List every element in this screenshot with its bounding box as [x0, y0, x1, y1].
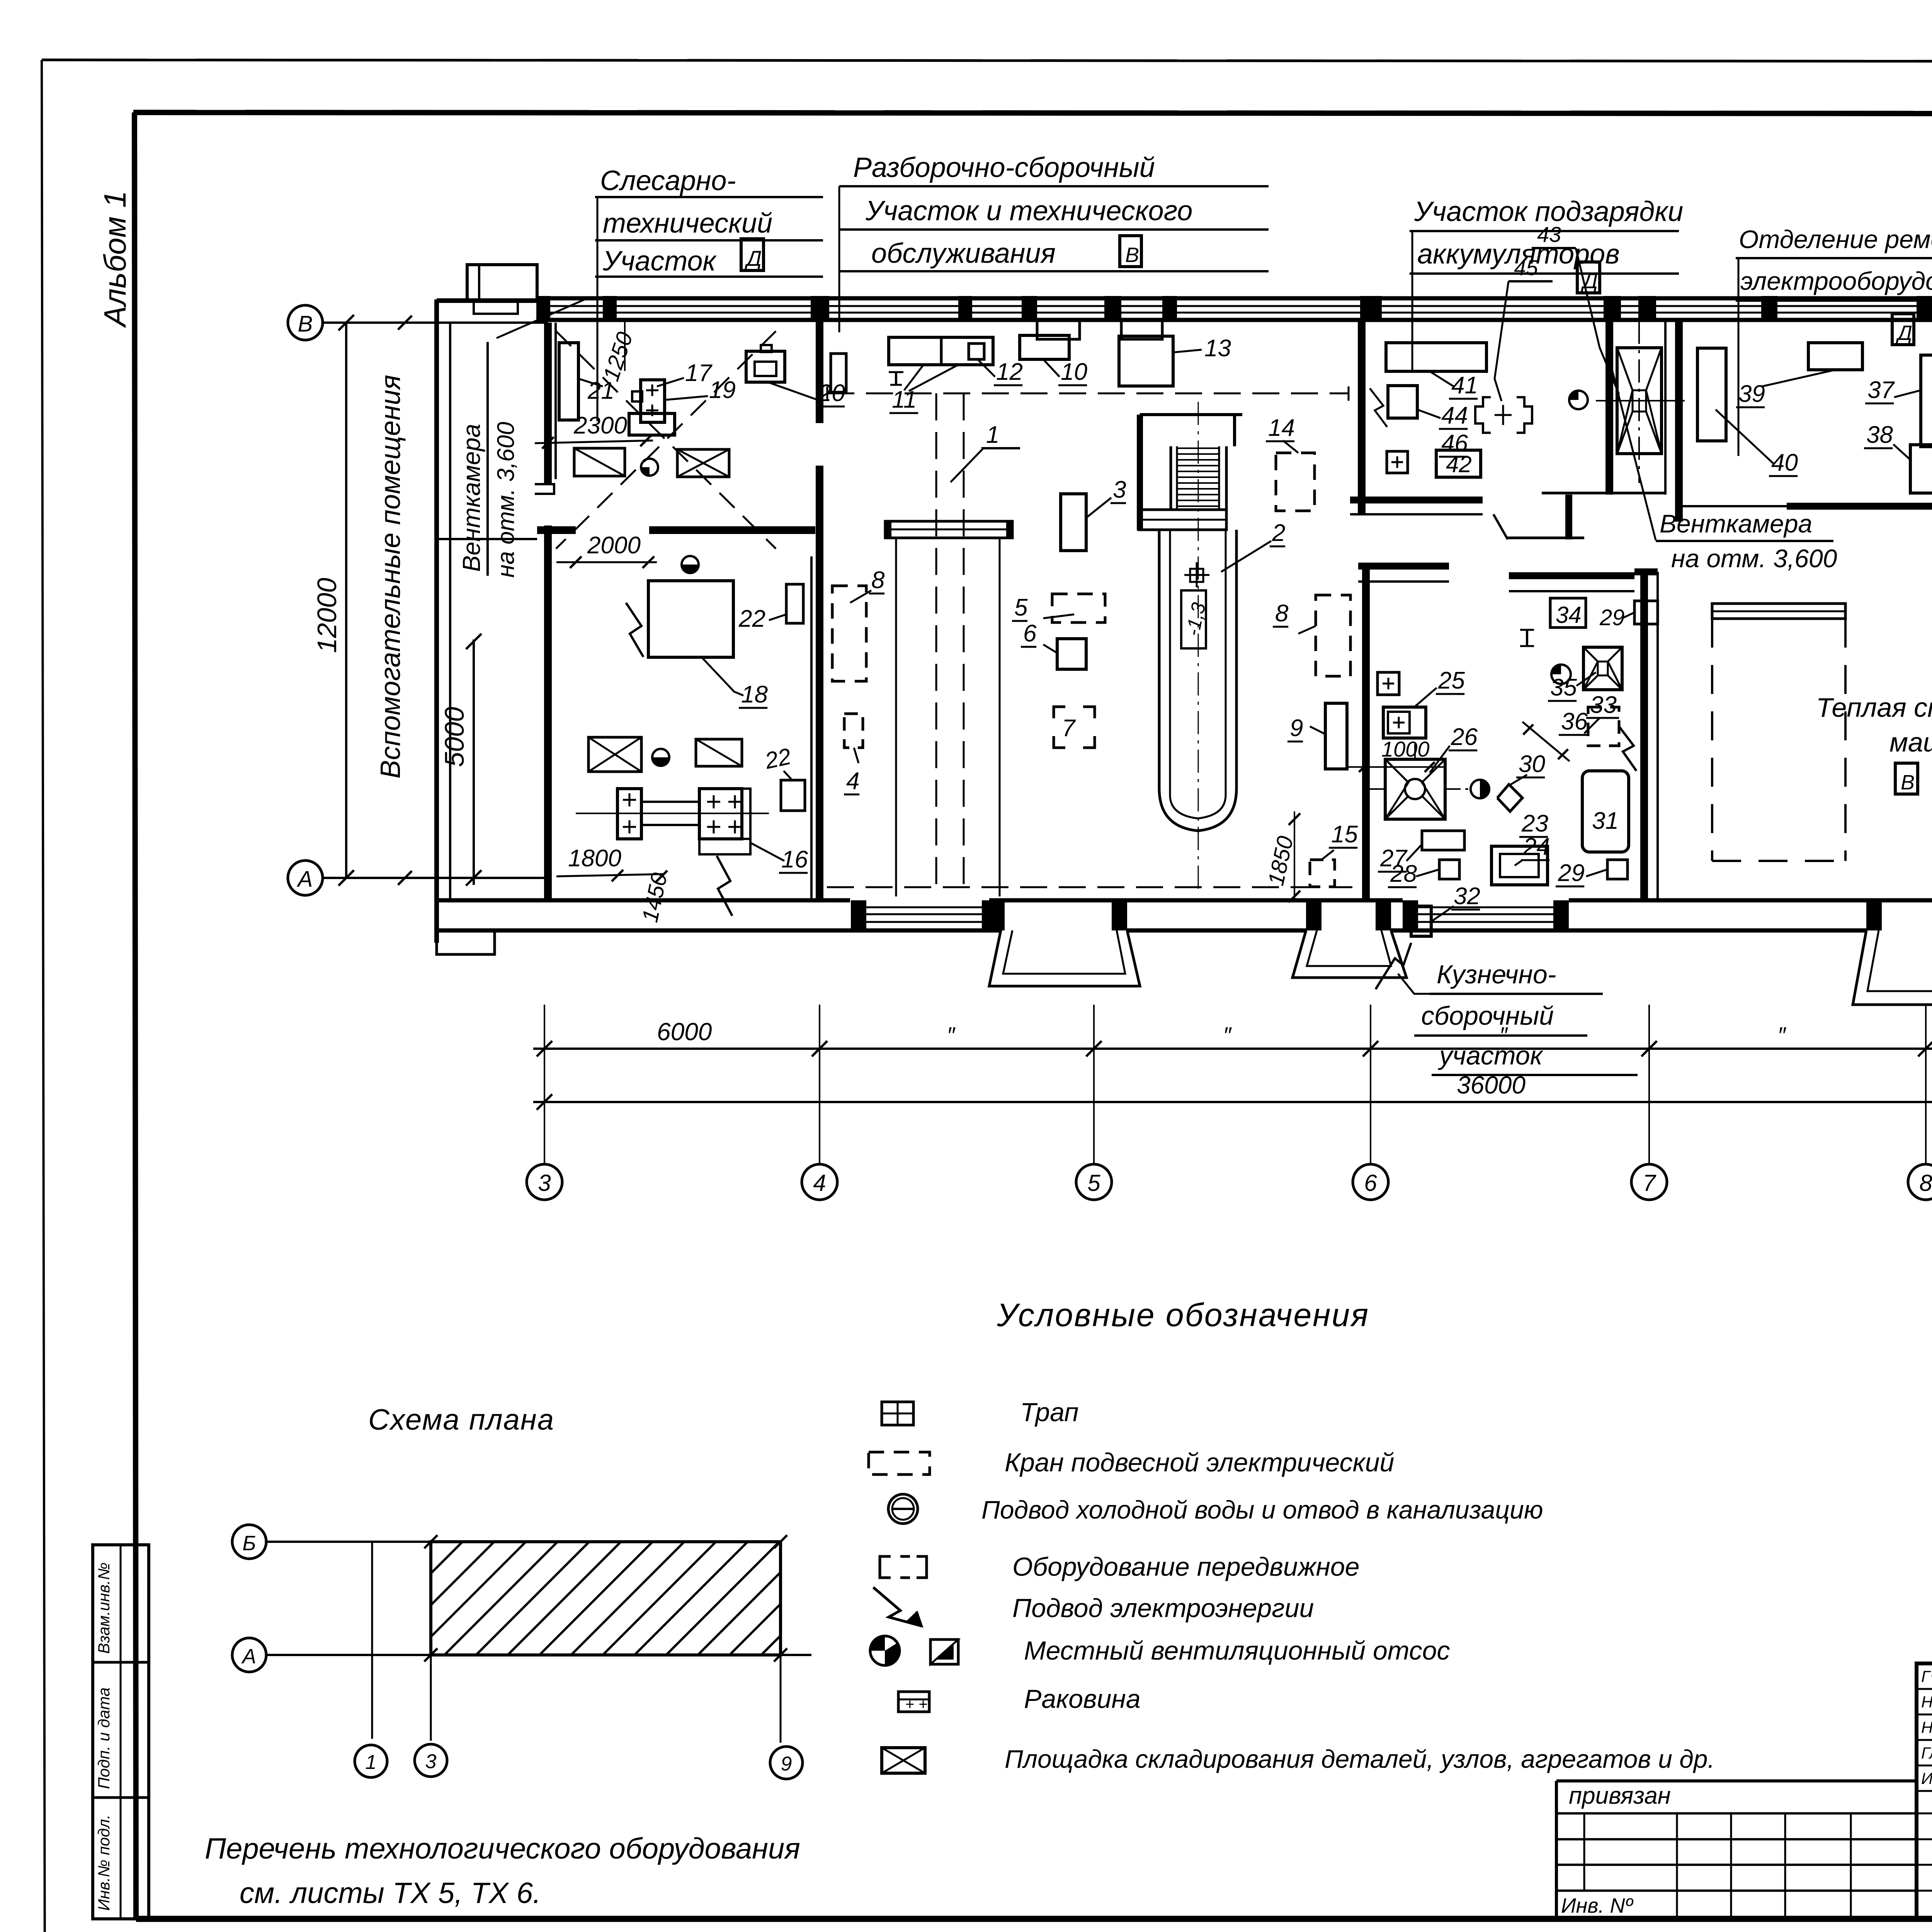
akkumulyator room walls: [1350, 321, 1508, 539]
equipment 8 left dashed: [832, 567, 885, 681]
dimension 1450 rotated: [637, 871, 672, 925]
lightning 33: [1619, 726, 1636, 771]
label 45: [1495, 255, 1553, 401]
storage pad 1: [574, 448, 625, 476]
svg-text:43: 43: [1537, 222, 1561, 247]
svg-text:17: 17: [685, 360, 713, 386]
svg-text:26: 26: [1451, 724, 1478, 750]
dimension 2300: [535, 412, 653, 449]
legend: crane: [869, 1448, 1394, 1477]
svg-text:44: 44: [1441, 402, 1468, 429]
legend: storage pad: [882, 1745, 1715, 1773]
top wall window band: [536, 296, 1932, 321]
svg-text:Подвод холодной воды и отвод в: Подвод холодной воды и отвод в канализац…: [981, 1495, 1543, 1524]
svg-text:В: В: [298, 311, 313, 337]
svg-text:16: 16: [781, 846, 808, 873]
ventkamera central label: [1607, 352, 1837, 573]
svg-text:Альбом 1: Альбом 1: [98, 190, 132, 328]
equipment 29b: [1556, 860, 1628, 886]
equipment 14 dashed: [1266, 415, 1315, 511]
svg-text:9: 9: [1290, 715, 1303, 742]
equipment 16 group: [576, 789, 808, 873]
schema axis A: [232, 1638, 811, 1672]
svg-text:Гл.спец: Гл.спец: [1921, 1744, 1932, 1762]
svg-text:2000: 2000: [587, 532, 641, 559]
storage pad 3: [588, 737, 641, 772]
svg-text:В: В: [1125, 243, 1139, 267]
equipment 13: [1119, 335, 1231, 386]
equipment 22c (hall): [831, 354, 846, 392]
svg-text:10: 10: [1061, 359, 1087, 385]
equipment 11 bench: [889, 337, 993, 413]
svg-text:Б: Б: [242, 1532, 256, 1555]
svg-text:14: 14: [1268, 415, 1295, 441]
dimension 1250 rotated: [599, 320, 638, 384]
svg-text:6: 6: [1364, 1170, 1377, 1196]
aux room dashed diagonals: [556, 331, 776, 549]
equipment 27: [1378, 831, 1464, 872]
equipment 5 dashed: [1012, 594, 1105, 622]
dimension 1800: [556, 845, 665, 881]
svg-text:38: 38: [1866, 422, 1893, 448]
svg-text:29: 29: [1558, 860, 1585, 886]
legend: water supply: [888, 1494, 1543, 1524]
svg-text:22: 22: [738, 605, 765, 632]
svg-text:Кузнечно-: Кузнечно-: [1437, 960, 1556, 989]
svg-text:5000: 5000: [439, 707, 469, 767]
otdelenie remonta walls: [1679, 321, 1787, 522]
label: Отделение ремонта электрооборудования: [1736, 225, 1932, 456]
svg-text:42: 42: [1446, 451, 1472, 477]
svg-text:Вспомогательные помещения: Вспомогательные помещения: [375, 375, 406, 779]
svg-text:35: 35: [1550, 674, 1577, 701]
svg-text:В: В: [1901, 771, 1915, 794]
svg-text:28: 28: [1390, 861, 1417, 887]
svg-text:Трап: Трап: [1020, 1398, 1079, 1427]
fan circle 26: [1471, 780, 1489, 798]
bottom dimension line 36000: [533, 1071, 1932, 1110]
svg-text:18: 18: [741, 681, 768, 708]
svg-text:2300: 2300: [573, 412, 627, 439]
axis circle А: [288, 861, 548, 895]
svg-text:9: 9: [781, 1753, 792, 1775]
schema axis 3: [415, 1744, 447, 1777]
svg-text:Разборочно-сборочный: Разборочно-сборочный: [853, 152, 1155, 183]
svg-text:11: 11: [892, 386, 917, 413]
svg-text:19: 19: [709, 377, 736, 403]
svg-text:обслуживания: обслуживания: [871, 238, 1056, 269]
svg-text:Кран подвесной электрический: Кран подвесной электрический: [1005, 1448, 1394, 1477]
svg-text:41: 41: [1451, 372, 1478, 399]
svg-text:24: 24: [1523, 833, 1550, 860]
svg-text:Инж.Iк.: Инж.Iк.: [1921, 1769, 1932, 1787]
equipment 34 boxed: [1550, 598, 1586, 628]
svg-text:4: 4: [813, 1170, 826, 1196]
svg-text:Венткамера: Венткамера: [1660, 509, 1812, 538]
water symbol 2: [682, 556, 699, 573]
svg-text:1800: 1800: [568, 845, 621, 872]
legend: ventilation suction: [870, 1636, 1450, 1665]
top wall door recesses: [1037, 321, 1162, 339]
svg-text:12000: 12000: [312, 578, 342, 653]
svg-text:Взам.инв.№: Взам.инв.№: [95, 1563, 113, 1654]
schema axis 9: [770, 1747, 803, 1779]
equipment 22a: [738, 584, 803, 632]
svg-text:3: 3: [538, 1170, 551, 1196]
axis circle 7: [1631, 1164, 1667, 1200]
gate apron 2: [1293, 930, 1406, 978]
equipment 20: [746, 345, 845, 406]
stairs and pit: [1139, 402, 1242, 889]
schema ticks: [424, 1535, 787, 1662]
svg-text:А: А: [241, 1645, 256, 1668]
lightning 44: [1370, 388, 1387, 427]
svg-text:3: 3: [425, 1750, 437, 1773]
equipment 31: [1582, 771, 1629, 852]
svg-text:7: 7: [1062, 715, 1076, 742]
equipment 35 fan: [1548, 647, 1622, 701]
svg-text:3: 3: [1113, 476, 1126, 503]
aux divider wall: [437, 530, 815, 539]
equipment 43 fan big: [1596, 321, 1685, 483]
aux building outline left: [437, 299, 548, 943]
svg-text:1: 1: [986, 422, 999, 448]
svg-text:А: А: [297, 867, 313, 892]
crane dashed span line: [827, 386, 1349, 401]
teplovoy uzel walls: [1787, 321, 1932, 514]
svg-text:36: 36: [1561, 708, 1588, 735]
svg-text:39: 39: [1738, 381, 1765, 407]
svg-text:33: 33: [1590, 692, 1617, 718]
equipment 7 movable: [1054, 707, 1095, 748]
svg-text:Раковина: Раковина: [1024, 1684, 1141, 1714]
equipment 29a: [1599, 601, 1658, 630]
lightning 18: [626, 603, 643, 657]
storage pad 2: [677, 449, 729, 477]
trap symbol kuzn: [1378, 672, 1399, 695]
legend: trap: [882, 1398, 1079, 1427]
svg-text:8: 8: [1275, 600, 1289, 627]
axis circle 4: [802, 1164, 837, 1200]
svg-text:″: ″: [1223, 1022, 1232, 1048]
svg-text:машин: машин: [1889, 727, 1932, 757]
equipment 44: [1388, 386, 1468, 457]
axis extension lines: [544, 1005, 1932, 1164]
stair bump top-left: [467, 265, 537, 314]
legend: movable equipment: [880, 1552, 1360, 1582]
svg-text:Местный вентиляционный отсос: Местный вентиляционный отсос: [1024, 1636, 1450, 1665]
axis circle 5: [1076, 1164, 1112, 1200]
svg-text:технический: технический: [603, 208, 772, 239]
svg-text:Участок: Участок: [602, 246, 717, 277]
label teplaya stoyanka: [1816, 692, 1932, 794]
axis circle 6: [1353, 1164, 1388, 1200]
axis circle 8: [1908, 1164, 1932, 1200]
equipment 32: [1411, 883, 1480, 936]
equipment 9: [1287, 703, 1347, 769]
equipment 17/19 washstand cluster: [629, 360, 736, 435]
I symbol kuzn: [1520, 630, 1570, 761]
svg-text:25: 25: [1438, 667, 1465, 694]
svg-text:Участок и технического: Участок и технического: [865, 196, 1192, 226]
svg-text:Перечень технологического об: Перечень технологического оборудования: [205, 1832, 800, 1865]
equipment 8 right dashed: [1273, 595, 1350, 676]
parking stall 1: [1712, 604, 1845, 861]
dimension 12000: [312, 315, 354, 886]
equipment 10: [1020, 335, 1087, 385]
equipment 4 dashed: [844, 714, 863, 794]
equipment 23/24: [1492, 810, 1550, 885]
svg-text:Н.контр: Н.контр: [1921, 1718, 1932, 1736]
wall axis 4: [811, 321, 820, 900]
hall lane dashed: [827, 886, 1352, 888]
lightning 32: [1376, 943, 1411, 989]
dimension 5000: [439, 634, 481, 886]
gate apron 1: [989, 930, 1140, 986]
equipment 40: [1697, 348, 1798, 476]
svg-text:Площадка складирования детал: Площадка складирования деталей, узлов, а…: [1005, 1745, 1715, 1773]
dimension 2000 (door): [556, 532, 657, 568]
equipment 37: [1865, 355, 1932, 447]
svg-text:6: 6: [1023, 620, 1037, 647]
fan circle 35: [1551, 665, 1571, 684]
svg-text:см. листы ТХ 5, ТХ 6.: см. листы ТХ 5, ТХ 6.: [240, 1877, 541, 1910]
svg-text:7: 7: [1643, 1170, 1656, 1196]
svg-text:″: ″: [1777, 1022, 1786, 1048]
equipment 33 dashed: [1586, 692, 1619, 746]
svg-text:8: 8: [871, 567, 885, 594]
equipment 6: [1021, 620, 1086, 669]
bottom dimension line 6000s: [533, 1018, 1932, 1056]
schema axis B: [232, 1525, 781, 1559]
perechen text: [205, 1832, 800, 1910]
kuznechno room walls: [1358, 566, 1658, 900]
gate jamb blocks: [989, 900, 1932, 930]
legend: electricity: [873, 1587, 1314, 1626]
svg-text:Теплая стоянка: Теплая стоянка: [1816, 692, 1932, 723]
svg-text:Схема плана: Схема плана: [368, 1403, 554, 1436]
bottom wall: [437, 900, 1932, 930]
equipment 30: [1497, 751, 1545, 811]
svg-text:30: 30: [1519, 751, 1545, 777]
svg-text:34: 34: [1556, 602, 1582, 628]
fan circle 43: [1569, 391, 1588, 409]
equipment 21: [559, 343, 614, 420]
svg-text:+ +: + +: [905, 1696, 928, 1713]
svg-text:сборочный: сборочный: [1421, 1001, 1554, 1031]
svg-text:на отм. 3,600: на отм. 3,600: [1671, 544, 1837, 573]
svg-text:ГЧП: ГЧП: [1921, 1667, 1932, 1685]
dimension 1000: [1349, 737, 1445, 772]
svg-text:37: 37: [1867, 377, 1895, 403]
equipment 12: [969, 344, 1023, 385]
svg-text:45: 45: [1514, 255, 1538, 280]
pit cross symbol: [1184, 562, 1209, 587]
svg-text:Подп. и дата: Подп. и дата: [95, 1687, 113, 1789]
svg-text:6000: 6000: [657, 1018, 712, 1046]
svg-text:5: 5: [1014, 594, 1028, 621]
svg-text:1: 1: [366, 1751, 377, 1774]
label 36: [1559, 708, 1600, 735]
water symbol 1: [641, 459, 658, 476]
trap symbol akk: [1387, 451, 1408, 473]
left corner step: [437, 930, 495, 954]
svg-text:Венткамера: Венткамера: [457, 424, 485, 572]
monorail dashed lines (item 1): [936, 393, 964, 889]
equipment 15 dashed: [1310, 821, 1358, 887]
axis circle 3: [527, 1164, 562, 1200]
svg-text:Д: Д: [744, 246, 762, 270]
svg-text:1000: 1000: [1381, 737, 1430, 761]
svg-text:Оборудование передвижное: Оборудование передвижное: [1012, 1552, 1360, 1582]
svg-text:12: 12: [996, 359, 1023, 385]
svg-text:15: 15: [1331, 821, 1358, 848]
label 1 monorail: [951, 422, 1020, 482]
schema hatched block: [431, 1542, 781, 1655]
svg-text:23: 23: [1521, 810, 1548, 837]
equipment 28: [1388, 860, 1459, 887]
label 43: [1532, 222, 1619, 394]
svg-text:″: ″: [947, 1022, 956, 1048]
axis circle В: [288, 305, 548, 340]
svg-text:5: 5: [1087, 1170, 1100, 1196]
equipment 25: [1383, 667, 1465, 738]
svg-text:40: 40: [1771, 449, 1798, 476]
side stamp table: [93, 1545, 149, 1919]
svg-text:22: 22: [762, 743, 793, 774]
svg-text:13: 13: [1204, 335, 1231, 362]
equipment 45 movable: [1475, 397, 1532, 433]
svg-text:электрооборудования: электрооборудования: [1740, 267, 1932, 295]
dimension 1850 rotated: [1263, 811, 1300, 902]
title block: privyazan table: [1556, 1781, 1917, 1919]
storage pad 4: [696, 739, 742, 766]
lightning 16: [717, 856, 732, 916]
legend: sink: [898, 1684, 1141, 1714]
equipment 3: [1061, 476, 1126, 551]
svg-text:Условные обозначения: Условные обозначения: [997, 1297, 1369, 1333]
equipment 26 fan: [1361, 724, 1478, 819]
svg-text:Слесарно-: Слесарно-: [600, 165, 736, 196]
wall axis 3: [535, 323, 556, 900]
schema verticals: [372, 1542, 781, 1743]
equipment 38: [1864, 422, 1932, 493]
label: Слесарно-технический участок: [595, 165, 823, 421]
svg-text:Инв. Nº: Инв. Nº: [1561, 1894, 1634, 1917]
equipment 18: [648, 581, 768, 708]
equipment 39: [1736, 343, 1862, 407]
svg-text:Подвод электроэнергии: Подвод электроэнергии: [1012, 1594, 1314, 1623]
svg-text:31: 31: [1592, 808, 1619, 834]
water symbol 3: [652, 749, 669, 766]
svg-text:Д: Д: [1896, 321, 1912, 345]
equipment 41: [1386, 343, 1486, 399]
label: Венткамера на отм.3,600 (rotated, left): [457, 298, 587, 578]
crane beam bar: [885, 521, 1012, 896]
label: Участок подзарядки аккумуляторов: [1410, 196, 1683, 371]
pit mark -1,3: [1181, 590, 1210, 648]
gate apron 3: [1853, 930, 1932, 1005]
svg-text:2: 2: [1272, 520, 1285, 546]
svg-text:Инв.№ подл.: Инв.№ подл.: [95, 1815, 113, 1911]
equipment 42 boxed: [1436, 450, 1481, 477]
schema axis 1: [355, 1745, 387, 1777]
svg-text:участок: участок: [1438, 1041, 1544, 1070]
label: Разборочно-сборочный участок: [839, 152, 1269, 332]
svg-text:на отм. 3,600: на отм. 3,600: [493, 422, 519, 578]
svg-text:Нач.отд: Нач.отд: [1921, 1693, 1932, 1711]
svg-text:29: 29: [1599, 605, 1625, 630]
svg-text:4: 4: [846, 768, 859, 794]
svg-text:21: 21: [587, 378, 614, 404]
equipment 22b: [762, 743, 805, 811]
svg-text:привязан: привязан: [1569, 1782, 1671, 1809]
label kuznechno-sborochny: [1398, 960, 1638, 1075]
svg-text:8: 8: [1919, 1170, 1932, 1196]
label 2 pit: [1221, 520, 1285, 572]
title block: names table: [1917, 1663, 1932, 1919]
ventkamera central walls: [1507, 321, 1665, 539]
svg-text:32: 32: [1454, 883, 1480, 910]
svg-text:Отделение ремонта: Отделение ремонта: [1739, 225, 1932, 253]
